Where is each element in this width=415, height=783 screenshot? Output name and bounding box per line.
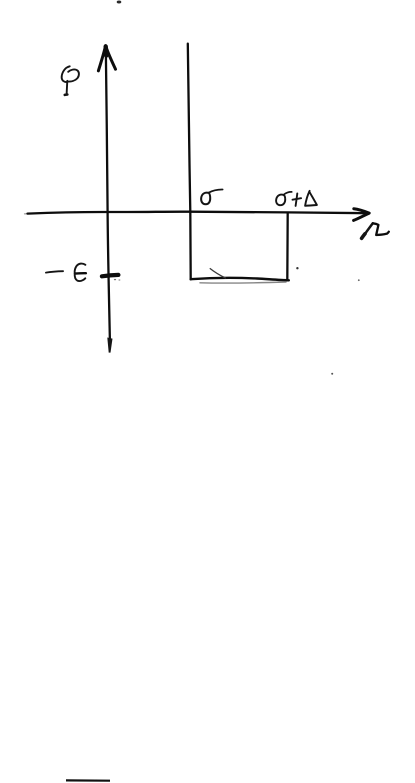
faint dot mid right <box>358 279 360 281</box>
sigma+delta: plus vertical <box>296 193 298 206</box>
y-axis bottom arrowhead <box>107 338 112 353</box>
epsilon tick on y-axis <box>102 275 119 276</box>
faint dot lower right <box>331 373 333 375</box>
y-axis top arrowhead tip blob <box>103 47 108 56</box>
phi label: inner loop <box>67 69 79 81</box>
n label: first stroke thick lower end <box>362 234 365 239</box>
sigma label flag <box>209 189 223 192</box>
minus of -epsilon <box>46 271 63 272</box>
phi label: stem <box>66 81 69 95</box>
tick tail speck 1 <box>114 279 116 280</box>
function: vertical line at sigma (asymptote + left step edge) <box>188 44 191 280</box>
phi label: outer loop <box>62 66 70 82</box>
function: right step edge at sigma+delta <box>286 213 289 281</box>
x-axis shaft (n axis) <box>28 212 369 214</box>
epsilon glyph bottom arc <box>75 274 86 282</box>
tick tail speck 2 <box>118 279 120 280</box>
x-axis faint lead-in <box>25 213 30 215</box>
x-axis arrowhead <box>354 209 370 221</box>
sigma+delta: sigma flag <box>284 192 292 195</box>
n label: first slanted stroke <box>362 223 373 237</box>
sigma+delta: plus horizontal <box>293 198 302 200</box>
y-axis top arrowhead <box>98 46 115 71</box>
dot right of step <box>296 267 298 269</box>
bottom-left line fragment <box>66 779 110 781</box>
function: step bottom at -epsilon <box>191 278 289 280</box>
epsilon glyph middle bar <box>75 272 86 275</box>
epsilon glyph top arc <box>75 264 86 273</box>
sigma+delta: delta triangle <box>305 191 317 206</box>
phi label: stem foot <box>65 93 68 96</box>
y-axis shaft (phi axis) <box>106 47 110 341</box>
speck top <box>117 1 122 4</box>
step bottom smudge (double stroke) <box>200 282 286 283</box>
sigma+delta: sigma bowl <box>276 195 285 206</box>
stray diagonal mark inside step <box>210 269 225 278</box>
n label: hump and tail <box>373 223 389 235</box>
sigma label bowl <box>201 193 210 205</box>
